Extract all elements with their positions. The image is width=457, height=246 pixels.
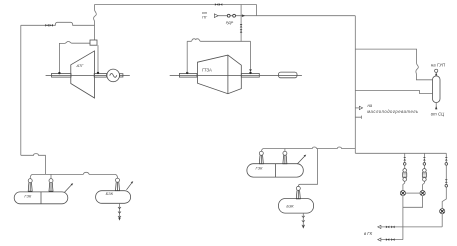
arrow: tank3 vent <box>297 156 305 164</box>
valve: boiler line cock 2 <box>233 14 236 17</box>
svg-text:АТГ: АТГ <box>76 63 85 68</box>
arrow: to GK line2 (open) <box>378 238 381 241</box>
tank 2: small storage <box>96 191 131 204</box>
arrow: steam from boiler (open) <box>214 14 218 18</box>
svg-text:на ГУП: на ГУП <box>431 62 446 67</box>
node: GTZA right inlet <box>249 72 251 74</box>
valve: GK line1 valve 1 <box>386 226 389 229</box>
wire: astern admission drop <box>250 41 252 69</box>
arrow: to oil heater (open) <box>359 106 362 109</box>
wire: ATG admission pipe with compensator <box>59 41 90 72</box>
wire: box to shaft inlet <box>97 45 99 72</box>
arrow: flow into GTZA astern inlet <box>249 69 252 72</box>
valve: tank branch valve 2 <box>50 24 53 27</box>
cock B <box>420 191 425 196</box>
generator G (circle with sine) <box>107 69 123 82</box>
tank 1: boiler water storage (divided) <box>14 192 68 204</box>
node: ATG right steam inlet <box>97 72 99 74</box>
svg-text:БЗК: БЗК <box>286 203 294 208</box>
valve: top header valve 1 <box>215 3 218 6</box>
valve: tank1 filling valve 1 <box>28 179 33 192</box>
wire: branch y=49.1 to cooler <box>355 49 432 80</box>
arrow: to GK (open) <box>378 225 381 228</box>
shaft: ATG generator train <box>46 74 130 78</box>
valve: tank4 filling valve <box>296 186 301 199</box>
wire: branch to tanks header y=25.3 with compensator <box>21 22 95 25</box>
tank 3: boiler water storage (divided) <box>247 164 303 177</box>
svg-text:маслоподогреватель: маслоподогреватель <box>367 109 418 114</box>
valve: top header valve 2 <box>219 3 222 6</box>
valve: tank3 filling valve 2 <box>283 151 288 164</box>
valve: tank2 filling valve <box>115 178 120 191</box>
valve: RDR drop valve 2 <box>240 29 243 32</box>
filter train 2 <box>422 153 426 190</box>
valve: tank1 filling valve 2 <box>49 179 54 192</box>
wire: branch to tank 4 <box>298 149 317 187</box>
component: ATG steam chest box <box>90 40 97 45</box>
turbine ATG body <box>71 51 95 98</box>
valve: tank3 filling valve 1 <box>259 151 264 164</box>
wire: right main drop x=355.3 <box>354 16 356 154</box>
valve: GK line2 valve 1 <box>386 238 389 241</box>
turbine GTZA body <box>198 55 242 94</box>
shaft: GTZA train <box>170 72 302 78</box>
node: GTZA left inlet <box>186 72 188 74</box>
arrow: tank2 vent <box>127 183 133 190</box>
wire: RDR drop to GTZA pipe <box>240 5 242 42</box>
wire: ATG supply downcomer with expansion bend <box>94 5 97 41</box>
wire: cock A-B connector <box>406 192 420 194</box>
wire: branch y=90.5 to cooler <box>355 91 432 94</box>
wire: left bottom run with hop to tank group 1 <box>21 154 46 175</box>
valve: boiler line cock 1 <box>227 14 230 17</box>
wire: A down leg <box>402 196 404 240</box>
node: ATG left steam inlet <box>58 72 60 74</box>
wire: B return loop <box>403 196 423 208</box>
svg-text:от СЦ: от СЦ <box>431 111 444 116</box>
cock A <box>400 191 405 196</box>
svg-text:на: на <box>368 103 373 108</box>
wire: tap to oil heater <box>355 107 359 109</box>
arrow: flow after RDR junction <box>242 14 245 17</box>
wire: filter bank header y=153.3 <box>355 152 446 154</box>
wire: tank group 1 manifold y=174.4 with hop <box>30 172 117 178</box>
wire: capped tap <box>355 116 361 119</box>
svg-text:ПГ: ПГ <box>202 15 208 19</box>
wire: GTZA admission pipe with compensator <box>187 39 250 73</box>
drain: tank2 <box>119 203 121 219</box>
valve: tank branch valve 1 <box>45 24 48 27</box>
wire: steam from boiler y=15.7 <box>218 15 355 17</box>
component: reduction gear <box>279 72 298 78</box>
wire: RDR bypass leg <box>256 5 258 16</box>
arrow: tank1 vent <box>65 185 72 193</box>
cock C <box>440 209 445 214</box>
svg-text:в ГК: в ГК <box>364 231 373 236</box>
svg-text:ГТЗА: ГТЗА <box>202 67 212 72</box>
drain: tank4 <box>302 213 304 226</box>
bypass line 3 <box>442 153 447 227</box>
svg-text:БЗК: БЗК <box>106 191 114 196</box>
valve: GK line1 valve 2 <box>391 226 394 229</box>
wire: main steam header (top) <box>95 4 257 6</box>
svg-text:РДР: РДР <box>226 21 234 25</box>
filter train 1 <box>403 153 407 190</box>
tank 4: small storage <box>279 199 314 214</box>
wire: to main condenser line 2 <box>381 239 403 241</box>
component: gland steam cooler (cylinder) <box>433 69 441 109</box>
wire: valve stem riser tank3 second valve <box>284 149 286 152</box>
valve: RDR drop valve 1 <box>240 24 243 27</box>
valve: GK line2 valve 2 <box>391 238 394 241</box>
wire: tank group 2 manifold y=148 with compensators <box>261 147 355 153</box>
wire: valve stem riser tank1 second valve <box>50 174 52 178</box>
wire: left drop main x=20.8 <box>20 25 22 155</box>
svg-text:ГЗК: ГЗК <box>24 194 32 199</box>
svg-text:от: от <box>202 11 207 15</box>
wire: to main condenser line 1 <box>381 226 442 228</box>
svg-text:ГЗК: ГЗК <box>256 166 264 171</box>
